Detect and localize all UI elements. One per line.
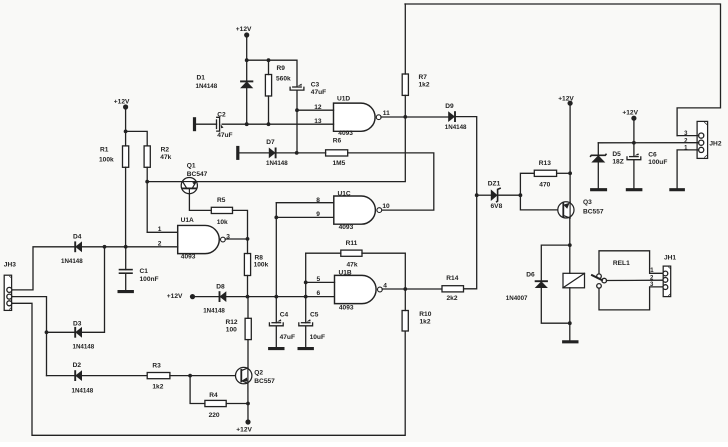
- svg-text:100k: 100k: [99, 156, 114, 163]
- wire Q3 collector down: [569, 218, 571, 245]
- node R9 top junction: [267, 58, 271, 62]
- node pin11/R7 junction: [403, 115, 407, 119]
- wire R6 to U1C out loop: [348, 153, 434, 210]
- wire C4 top: [275, 297, 277, 323]
- resistor R9: [265, 65, 291, 96]
- svg-text:1k2: 1k2: [420, 318, 431, 325]
- zener diode D5: [590, 151, 624, 165]
- wire net U1D-out top loop: [405, 4, 721, 136]
- ground (relay): [562, 340, 578, 343]
- node C2/D1 junction: [245, 123, 248, 126]
- wire +12V to Q3 emitter: [569, 103, 571, 203]
- wire branch to R2: [126, 131, 148, 146]
- wire D2 to R3: [82, 375, 147, 377]
- wire D5 bottom: [597, 163, 599, 188]
- sensor terminal (D7 input): [236, 146, 239, 160]
- svg-text:1N4007: 1N4007: [506, 295, 528, 302]
- wire contact NO to JH1 pin3: [599, 287, 663, 310]
- capacitor C2 47uF: [216, 111, 232, 138]
- resistor R4: [205, 392, 226, 419]
- sensor terminal (C2 input): [193, 117, 196, 131]
- svg-text:47uF: 47uF: [311, 89, 326, 96]
- svg-text:1N4148: 1N4148: [72, 388, 94, 395]
- node +12V/C6 junction: [632, 141, 636, 145]
- svg-text:1N4148: 1N4148: [196, 83, 218, 90]
- wire C6 bottom: [633, 160, 635, 188]
- svg-text:1N4148: 1N4148: [445, 124, 467, 131]
- node D7/R6 junction: [295, 151, 299, 155]
- pin 12 label: [314, 104, 322, 111]
- transistor Q1 BC547: [181, 163, 207, 194]
- wire JH3 pin3 to bottom rail: [12, 303, 405, 435]
- wire sensor to D7: [239, 152, 268, 154]
- svg-text:D4: D4: [73, 233, 82, 240]
- node pin5 junction: [304, 281, 308, 285]
- wire D4 to U1A pin2: [82, 246, 178, 248]
- svg-text:D2: D2: [73, 362, 82, 369]
- svg-text:100uF: 100uF: [648, 159, 667, 166]
- wire D1 anode down: [246, 88, 248, 124]
- svg-text:R2: R2: [161, 147, 170, 154]
- svg-text:1k2: 1k2: [419, 82, 430, 89]
- ground (C5): [298, 347, 314, 350]
- svg-text:D1: D1: [197, 74, 206, 81]
- node C4 junction: [274, 295, 278, 299]
- svg-text:R13: R13: [539, 160, 551, 167]
- svg-text:47k: 47k: [347, 262, 358, 269]
- wire JH2 pin2 line: [598, 142, 698, 144]
- wire R8 bottom: [247, 276, 249, 297]
- svg-text:1N4148: 1N4148: [203, 308, 225, 315]
- pin 1 label: [158, 226, 162, 233]
- resistor R3: [147, 363, 170, 391]
- node pin4/R10/R11 junction: [403, 287, 407, 291]
- diode D4: [61, 233, 83, 265]
- svg-text:10k: 10k: [217, 219, 228, 226]
- wire D6 top branch: [541, 245, 570, 281]
- diode D8: [203, 284, 226, 315]
- wire +12V to D8: [193, 296, 220, 298]
- pin 3 label: [226, 233, 230, 240]
- svg-text:100k: 100k: [254, 262, 269, 269]
- wire coil bottom: [569, 288, 571, 323]
- svg-text:D3: D3: [73, 321, 82, 328]
- svg-text:U1B: U1B: [339, 269, 352, 276]
- wire U1D pin13: [222, 123, 333, 125]
- node R2/Q1 junction: [145, 180, 149, 184]
- node R3/R4 junction: [188, 374, 192, 378]
- svg-text:C3: C3: [311, 81, 320, 88]
- diode D9: [445, 103, 467, 131]
- node D3 line junction: [45, 330, 49, 334]
- diode D2: [72, 362, 94, 394]
- node C3/pin12 junction: [295, 108, 299, 112]
- pin 9 label: [316, 211, 320, 218]
- svg-text:+12V: +12V: [236, 26, 252, 33]
- pin 6 label: [317, 290, 321, 297]
- wire Q3 base: [520, 195, 558, 210]
- node pin8/pin9 junction: [274, 216, 278, 220]
- wire R8 top: [247, 239, 249, 254]
- capacitor C1 100nF: [120, 268, 159, 283]
- svg-text:D5: D5: [612, 151, 621, 158]
- wire U1D pin12: [297, 109, 334, 111]
- ground (C1): [118, 290, 134, 293]
- wire pin12 node down to D7 line: [296, 110, 298, 153]
- relay coil REL1: [563, 273, 585, 288]
- resistor R12: [226, 318, 252, 339]
- svg-text:11: 11: [383, 110, 390, 117]
- svg-text:DZ1: DZ1: [488, 181, 501, 188]
- nand gate U1D: [334, 96, 382, 137]
- svg-text:Q3: Q3: [583, 199, 592, 206]
- svg-text:1M5: 1M5: [333, 160, 346, 167]
- svg-text:C6: C6: [648, 152, 657, 159]
- svg-text:R14: R14: [446, 275, 458, 282]
- zener diode DZ1: [488, 181, 503, 211]
- svg-text:R10: R10: [419, 311, 431, 318]
- pin 11 label: [383, 110, 390, 117]
- svg-text:R6: R6: [333, 137, 342, 144]
- wire R7 bottom: [404, 95, 406, 117]
- wire R4 right: [226, 403, 248, 405]
- wire Q2 emitter to +12V: [247, 383, 249, 422]
- node R1/C1 junction: [124, 245, 128, 249]
- wire R12 bottom to Q2 collector: [247, 340, 249, 368]
- svg-text:1N4148: 1N4148: [61, 258, 83, 265]
- wire C5 top: [305, 297, 307, 323]
- node C5 junction: [304, 295, 308, 299]
- svg-text:D6: D6: [526, 271, 535, 278]
- wire U1C pin9: [276, 216, 334, 218]
- wire C1 bottom: [125, 273, 127, 290]
- wire DZ1 right to node: [499, 194, 521, 196]
- resistor R2: [144, 146, 172, 167]
- wire R1 top: [125, 131, 127, 146]
- wire sensor to C2: [196, 123, 217, 125]
- wire +12V left down: [125, 107, 127, 131]
- resistor R7: [402, 74, 430, 95]
- svg-text:220: 220: [209, 412, 220, 419]
- wire JH3 pin2 to D2/D3 net: [12, 297, 47, 376]
- wire Q1 emitter right to U1D feedback: [196, 117, 405, 182]
- wire R7 top: [404, 4, 406, 74]
- wire C3 bottom to pin12: [296, 91, 298, 111]
- supply +12V (Q2): [236, 419, 252, 433]
- node +12V/D1/R9 junction: [245, 58, 249, 62]
- svg-text:R11: R11: [346, 240, 358, 247]
- svg-text:C1: C1: [140, 268, 149, 275]
- ground (JH2 pin1): [669, 188, 685, 191]
- svg-text:560k: 560k: [276, 75, 291, 82]
- wire R10 top: [404, 289, 406, 311]
- node R9/pin13 junction: [267, 122, 271, 126]
- pin 8 label: [316, 197, 320, 204]
- svg-text:Q2: Q2: [254, 369, 263, 376]
- nand gate U1B: [335, 269, 383, 311]
- wire R2 to U1A pin1: [147, 231, 178, 233]
- svg-text:R7: R7: [419, 74, 428, 81]
- node R1/R2 junction: [124, 130, 128, 134]
- svg-text:D7: D7: [266, 139, 275, 146]
- svg-text:R1: R1: [100, 147, 109, 154]
- wire R5 to U1A output: [233, 210, 248, 239]
- relay contact REL1: [592, 260, 630, 288]
- svg-text:4093: 4093: [181, 254, 196, 261]
- node R4 right junction: [246, 402, 250, 406]
- wire R4 left: [190, 376, 205, 404]
- svg-text:6V8: 6V8: [491, 203, 503, 210]
- wire R11 right: [362, 253, 405, 289]
- wire Q1 collector left: [147, 181, 182, 183]
- svg-text:BC557: BC557: [583, 208, 604, 215]
- svg-text:4093: 4093: [339, 304, 354, 311]
- wire +12V down: [246, 35, 248, 60]
- wire junction to R6: [297, 152, 326, 154]
- svg-text:+12V: +12V: [167, 293, 183, 300]
- svg-text:D8: D8: [216, 284, 225, 291]
- svg-text:470: 470: [539, 182, 550, 189]
- connector JH2: [684, 121, 722, 158]
- wire D3 left: [47, 331, 76, 333]
- wire coil top: [569, 245, 571, 273]
- wire R3 to Q2 base: [170, 375, 236, 377]
- svg-text:10: 10: [382, 203, 390, 210]
- svg-text:U1C: U1C: [338, 191, 351, 198]
- wire R9 bottom: [268, 96, 270, 124]
- nand gate U1C: [334, 191, 382, 232]
- wire R11 branch vertical: [305, 253, 307, 296]
- wire JH2 pin1 to ground: [677, 150, 699, 188]
- wire coil to ground: [569, 323, 571, 340]
- wire D9 to DZ1 vertical: [456, 117, 477, 196]
- wire C1 top: [125, 247, 127, 270]
- wire D7 to junction: [276, 152, 297, 154]
- resistor R5: [211, 197, 232, 226]
- wire R12 top: [247, 297, 249, 319]
- resistor R1: [99, 146, 129, 167]
- wire U1B output: [382, 288, 442, 290]
- svg-text:JH2: JH2: [709, 140, 721, 147]
- svg-text:BC547: BC547: [187, 171, 208, 178]
- supply +12V (D8): [167, 293, 195, 300]
- wire JH3 pin1 to D4: [12, 247, 75, 290]
- node DZ1/R13/Q3-base junction: [519, 193, 523, 197]
- capacitor C6 100uF: [627, 152, 667, 166]
- diode D7: [266, 139, 288, 167]
- wire U1A output stub: [225, 238, 247, 240]
- svg-text:100nF: 100nF: [140, 276, 159, 283]
- wire U1C pin8 corner down: [275, 203, 277, 218]
- svg-text:1: 1: [158, 226, 162, 233]
- pin 2 label: [158, 241, 162, 248]
- ground (D5): [590, 188, 607, 191]
- svg-text:4093: 4093: [338, 130, 353, 137]
- node D6/relay junction (top): [568, 243, 572, 247]
- svg-text:18Z: 18Z: [612, 158, 623, 165]
- wire C4 bottom: [275, 326, 277, 347]
- diode D3: [73, 321, 95, 351]
- pin 10 label: [382, 203, 390, 210]
- wire R13 right: [557, 172, 571, 174]
- transistor Q2 BC557: [236, 367, 276, 384]
- svg-text:R3: R3: [152, 363, 161, 370]
- supply +12V (left): [114, 99, 130, 110]
- svg-text:R4: R4: [209, 392, 218, 399]
- svg-text:R8: R8: [255, 255, 264, 262]
- node U1A-out/R5/R8 junction: [246, 237, 250, 241]
- pin 4 label: [383, 283, 387, 290]
- svg-text:1N4148: 1N4148: [73, 343, 95, 350]
- wire U1B pin5: [306, 281, 335, 283]
- wire U1D pin11 output: [381, 116, 448, 118]
- node coil/D6 junction (bottom): [568, 321, 572, 325]
- transistor Q3 BC557: [558, 199, 604, 218]
- diode D6: [506, 271, 548, 302]
- svg-text:JH1: JH1: [664, 255, 676, 262]
- wire D5 top: [597, 143, 599, 156]
- svg-text:JH3: JH3: [4, 262, 16, 269]
- node DZ1 junction: [475, 193, 479, 197]
- capacitor C5 10uF: [299, 312, 325, 342]
- node R8/D8/pin6 junction: [246, 295, 250, 299]
- svg-text:REL1: REL1: [613, 260, 630, 267]
- svg-text:R12: R12: [226, 319, 238, 326]
- svg-text:47uF: 47uF: [217, 132, 232, 139]
- resistor R8: [244, 254, 268, 276]
- pin 13 label: [314, 118, 322, 125]
- supply +12V (top): [236, 26, 252, 37]
- supply +12V (Q3): [558, 96, 574, 106]
- resistor R13: [534, 160, 556, 189]
- svg-text:4093: 4093: [339, 224, 354, 231]
- svg-text:10uF: 10uF: [310, 334, 325, 341]
- wire JH2 pin3 stub: [677, 135, 699, 137]
- wire pin9 node down to pin6 line: [275, 217, 277, 296]
- resistor R10: [402, 311, 432, 332]
- wire D3 to D4 line: [82, 247, 105, 332]
- wire +12V down to line: [633, 118, 635, 143]
- svg-text:+12V: +12V: [236, 427, 252, 434]
- svg-text:R9: R9: [277, 65, 286, 72]
- wire C6 top: [633, 143, 635, 157]
- ground (C6): [626, 188, 643, 191]
- wire R9 top: [268, 60, 270, 74]
- node D1/pin13 junction: [245, 122, 249, 126]
- wire U1C pin8: [276, 202, 334, 204]
- diode D1: [196, 74, 254, 90]
- svg-text:C4: C4: [280, 312, 289, 319]
- wire R1 bottom: [125, 167, 127, 247]
- pin 5 label: [317, 276, 321, 283]
- supply +12V (JH2): [622, 109, 638, 120]
- wire node up to R13: [520, 173, 534, 195]
- wire DZ1 left: [477, 194, 491, 196]
- ground (C4): [268, 347, 284, 350]
- svg-text:47uF: 47uF: [280, 334, 295, 341]
- wire contact common to JH1 pin2: [607, 279, 664, 281]
- svg-text:U1A: U1A: [181, 217, 194, 224]
- resistor R11: [341, 240, 362, 269]
- svg-text:+12V: +12V: [114, 99, 130, 106]
- resistor R14: [442, 275, 464, 302]
- svg-text:Q1: Q1: [187, 163, 196, 170]
- wire D2 left: [47, 375, 76, 377]
- wire C5 bottom: [305, 326, 307, 347]
- capacitor C4 47uF: [269, 312, 295, 342]
- svg-text:BC557: BC557: [254, 378, 275, 385]
- wire D1 cathode up: [246, 60, 248, 81]
- resistor R6: [326, 137, 348, 167]
- connector JH3: [4, 262, 16, 311]
- svg-text:C5: C5: [310, 312, 319, 319]
- wire D6 bottom branch: [541, 288, 570, 323]
- wire Q1 base to R5: [189, 194, 211, 211]
- wire R11 left: [306, 252, 341, 254]
- svg-text:+12V: +12V: [622, 109, 638, 116]
- svg-text:2k2: 2k2: [447, 295, 458, 302]
- wire D8 to junction / pin6 line: [226, 296, 334, 298]
- capacitor C3 47uF: [290, 81, 326, 96]
- node D3 vertical junction: [103, 245, 107, 249]
- svg-text:1N4148: 1N4148: [266, 160, 288, 167]
- svg-text:C2: C2: [217, 111, 226, 118]
- svg-text:100: 100: [226, 326, 237, 333]
- svg-text:47k: 47k: [160, 154, 171, 161]
- node R13/+12V junction: [568, 171, 572, 175]
- wire DZ1 junction down to R14: [464, 195, 477, 289]
- svg-text:1k2: 1k2: [152, 384, 163, 391]
- svg-text:D9: D9: [445, 103, 454, 110]
- wire R2 bottom: [146, 167, 148, 232]
- svg-text:R5: R5: [217, 197, 226, 204]
- wire contact NC to JH1 pin1: [599, 251, 663, 274]
- svg-text:U1D: U1D: [337, 96, 350, 103]
- nand gate U1A: [178, 217, 226, 261]
- svg-text:6: 6: [317, 290, 321, 297]
- connector JH1: [650, 255, 676, 297]
- wire top rail to C3: [247, 60, 297, 86]
